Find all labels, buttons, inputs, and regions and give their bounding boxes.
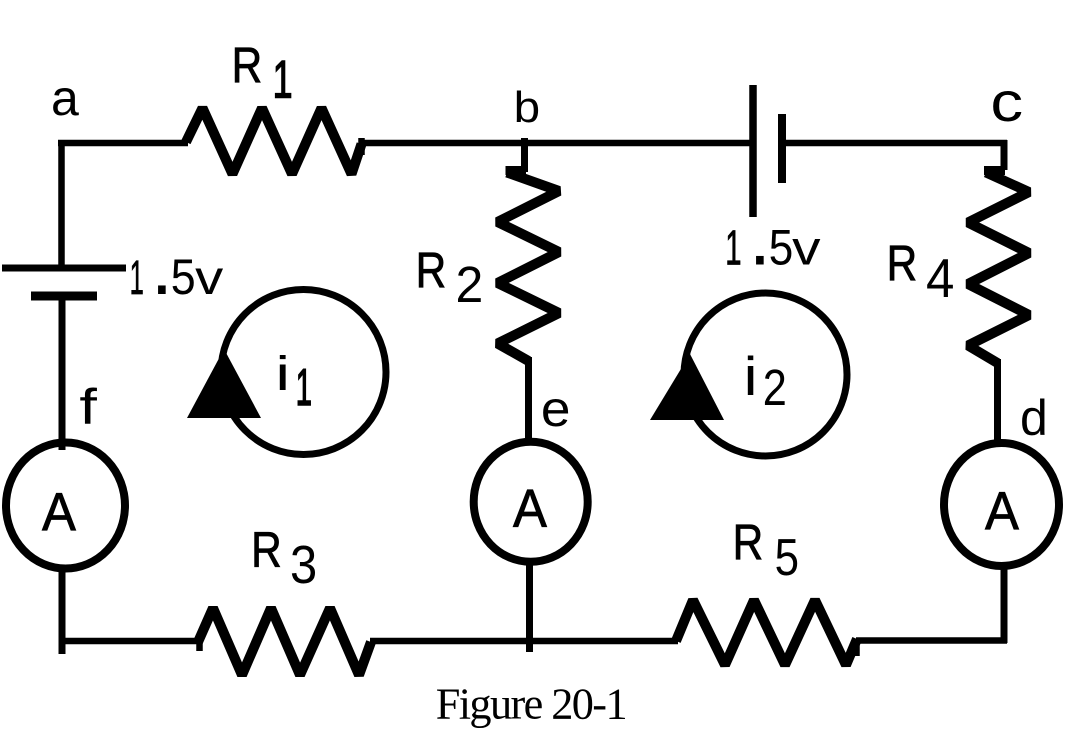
ammeter A1 left bbox=[6, 443, 125, 569]
svg-text:2: 2 bbox=[763, 359, 787, 416]
node e bbox=[541, 381, 571, 437]
wire right vertical up to ammeter A3 bbox=[1001, 567, 1008, 643]
label R3 bbox=[251, 522, 317, 595]
svg-text:.: . bbox=[749, 193, 771, 282]
wire ammeter A2 down to bottom wire bbox=[526, 562, 533, 652]
svg-text:b: b bbox=[514, 83, 541, 132]
wire bottom-middle horizontal bbox=[370, 638, 678, 645]
battery B1 short plate bbox=[31, 292, 97, 301]
resistor R1 bbox=[186, 108, 362, 174]
label R4 bbox=[887, 236, 955, 310]
wire battery B2 to node c bbox=[786, 140, 1008, 147]
resistor R2 bbox=[498, 173, 560, 362]
svg-text:.: . bbox=[151, 222, 173, 311]
svg-text:i: i bbox=[744, 345, 758, 407]
label 1.5v left battery bbox=[130, 222, 224, 311]
wire R4 down to ammeter A3 bbox=[994, 359, 1001, 446]
loop current i1 arrowhead bbox=[187, 349, 261, 418]
wire battery B1 down to ammeter A1 bbox=[59, 296, 66, 450]
node f bbox=[79, 379, 97, 435]
label 1.5v top battery bbox=[725, 193, 821, 282]
label i2 bbox=[744, 345, 787, 416]
node a bbox=[51, 70, 79, 126]
wire bottom-left horizontal bbox=[59, 641, 201, 651]
label R5 bbox=[733, 515, 799, 587]
wire R2 down to ammeter A2 bbox=[525, 357, 532, 444]
svg-text:f: f bbox=[79, 379, 97, 435]
resistor R3 bbox=[198, 608, 371, 675]
svg-text:v: v bbox=[792, 222, 821, 276]
caption Figure 20-1 bbox=[436, 679, 626, 728]
node b stub down to R2 bbox=[506, 138, 527, 172]
svg-text:R: R bbox=[733, 515, 764, 571]
svg-text:c: c bbox=[990, 70, 1023, 133]
wire node c corner down to R4 bbox=[984, 140, 1005, 171]
svg-text:Figure 20-1: Figure 20-1 bbox=[436, 679, 626, 728]
wire bottom-right horizontal bbox=[856, 637, 1007, 644]
svg-text:e: e bbox=[541, 381, 571, 437]
svg-text:2: 2 bbox=[456, 256, 484, 313]
svg-text:v: v bbox=[195, 252, 223, 305]
battery B1 long plate bbox=[2, 265, 126, 272]
loop current i2 circle bbox=[684, 293, 847, 456]
svg-text:1: 1 bbox=[296, 359, 312, 417]
svg-text:1: 1 bbox=[273, 51, 293, 110]
resistor R5 bbox=[676, 600, 857, 665]
svg-text:A: A bbox=[985, 482, 1019, 542]
label i1 bbox=[275, 348, 312, 417]
label R2 bbox=[416, 243, 484, 313]
battery B2 short plate bbox=[778, 114, 786, 183]
wire left vertical a down to battery B1 bbox=[58, 140, 65, 268]
wire R1 to battery B2 bbox=[361, 140, 753, 147]
node b bbox=[514, 83, 541, 132]
svg-text:A: A bbox=[42, 483, 76, 543]
svg-text:A: A bbox=[513, 479, 547, 539]
svg-text:R: R bbox=[887, 236, 918, 292]
wire ammeter A1 down to bottom wire bbox=[59, 570, 66, 654]
svg-text:R: R bbox=[416, 243, 447, 299]
svg-text:R: R bbox=[232, 38, 263, 94]
svg-text:1: 1 bbox=[130, 252, 144, 305]
svg-text:d: d bbox=[1020, 390, 1048, 446]
svg-text:5: 5 bbox=[775, 529, 799, 587]
svg-text:5: 5 bbox=[171, 249, 196, 305]
battery B2 long plate bbox=[749, 85, 757, 217]
ammeter A3 right bbox=[944, 443, 1059, 566]
resistor R4 bbox=[968, 173, 1029, 364]
svg-text:3: 3 bbox=[290, 535, 317, 595]
svg-text:4: 4 bbox=[926, 247, 954, 309]
wire top-left horizontal from node a to R1 bbox=[58, 140, 188, 147]
svg-text:5: 5 bbox=[769, 220, 794, 276]
label R1 bbox=[232, 38, 293, 110]
svg-text:1: 1 bbox=[725, 222, 741, 276]
svg-text:i: i bbox=[275, 348, 290, 401]
node c bbox=[990, 70, 1023, 133]
loop current i1 circle bbox=[221, 290, 386, 455]
svg-text:R: R bbox=[251, 522, 282, 578]
node d bbox=[1020, 390, 1048, 446]
loop current i2 arrowhead bbox=[650, 354, 724, 420]
svg-text:a: a bbox=[51, 70, 79, 126]
ammeter A2 middle bbox=[474, 442, 588, 562]
